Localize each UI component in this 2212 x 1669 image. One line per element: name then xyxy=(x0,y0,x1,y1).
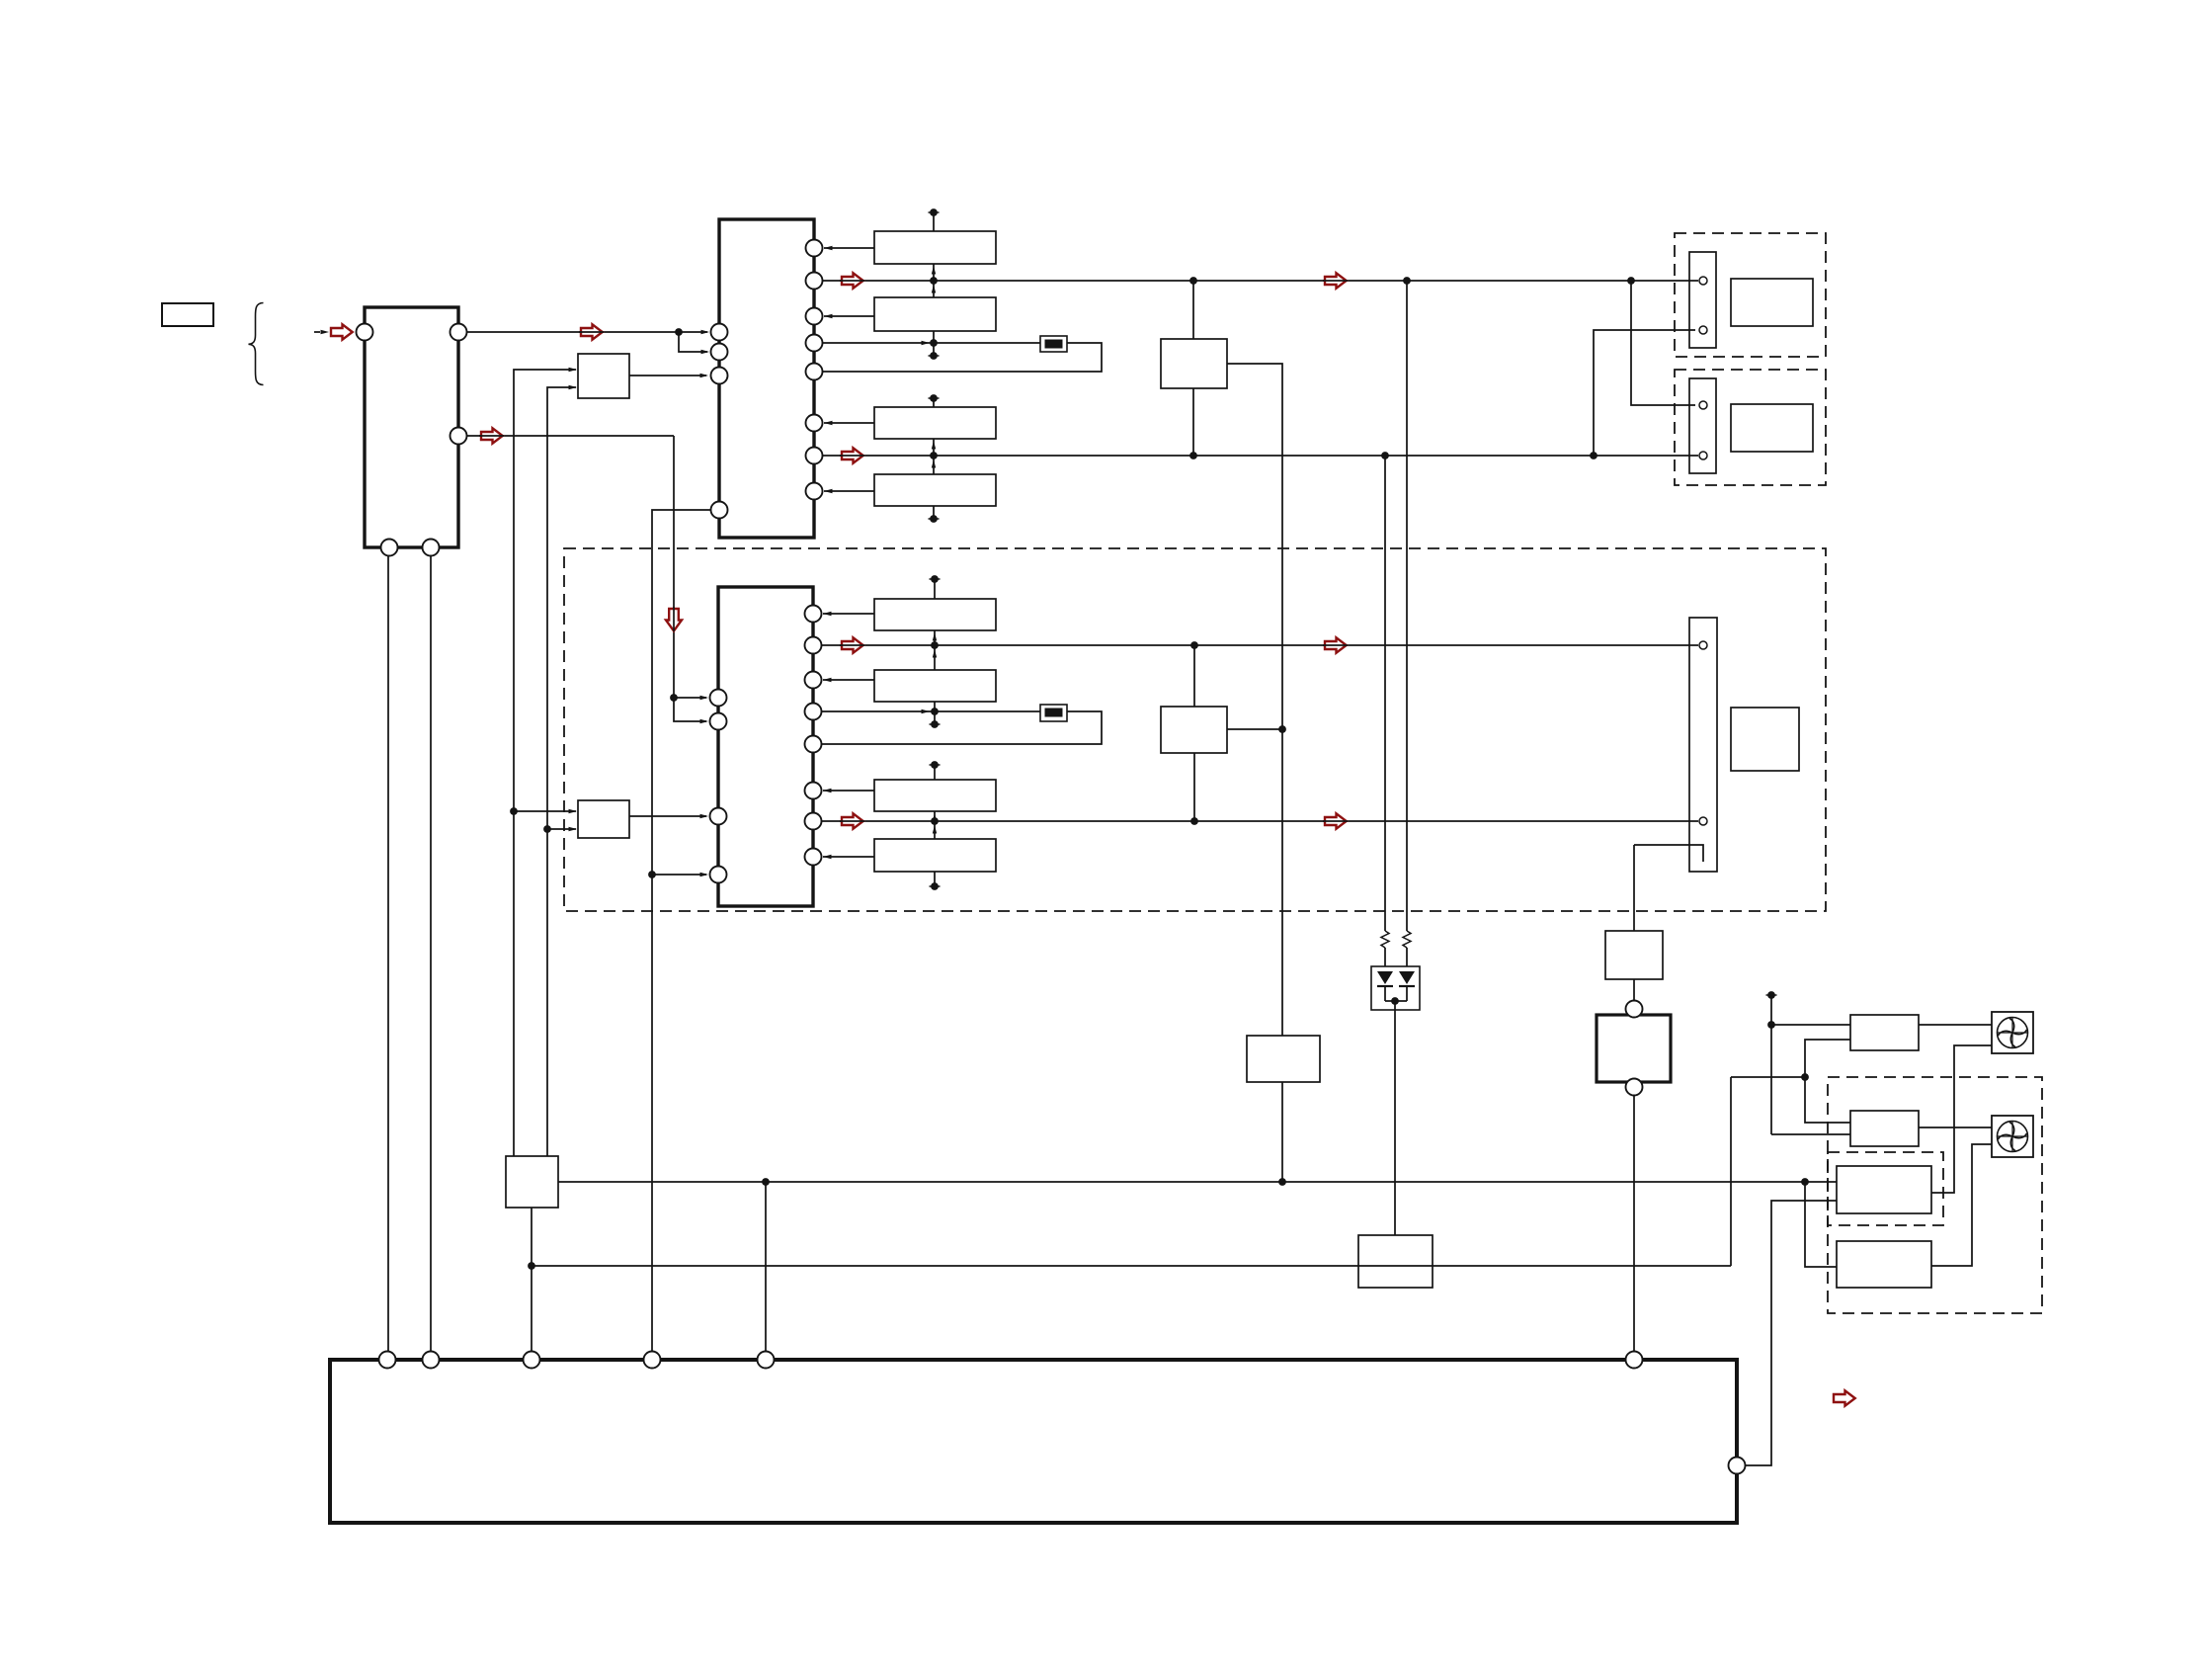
U2 pin R8 xyxy=(806,483,823,500)
wire U1 gnd2 down xyxy=(430,555,432,1360)
fuse RB2 xyxy=(1850,1111,1919,1146)
thermo RB3 xyxy=(1837,1166,1931,1213)
wire P2 to riser xyxy=(1731,1076,1805,1078)
node L8 a xyxy=(528,1262,535,1270)
U1 pin gnd2 xyxy=(423,540,440,556)
bus T2 top segment xyxy=(929,394,940,407)
wire box1 to U2 xyxy=(824,246,874,250)
CN2 pin2 xyxy=(1699,452,1707,459)
wire SB2 in b xyxy=(547,827,577,831)
wire M2 bottom xyxy=(1193,753,1195,821)
red arrow L5a xyxy=(840,448,864,462)
node L7 b xyxy=(1278,1178,1286,1186)
filter box2 xyxy=(874,297,996,331)
U3 pin R8 xyxy=(805,849,822,866)
node L6-M2 xyxy=(1190,817,1198,825)
CN1 pin1 xyxy=(1699,277,1707,285)
wire box8 to U3 xyxy=(823,855,874,859)
arrow into SB1 b xyxy=(569,385,578,389)
wire RB3 out xyxy=(1931,1045,1992,1193)
input arrowhead xyxy=(321,330,330,334)
node P1-RB1 xyxy=(1767,1021,1775,1029)
wire IC1 top-right to net A xyxy=(466,331,679,333)
U1 pin out2 xyxy=(451,428,467,445)
load B2 xyxy=(1731,404,1813,452)
CN1 pin2 xyxy=(1699,326,1707,334)
component C2 xyxy=(1040,705,1067,721)
U3 pin R6 xyxy=(805,783,822,799)
red arrow A1 xyxy=(579,324,604,339)
wire SB2 in a xyxy=(514,809,577,813)
wire RB3 in2 xyxy=(1745,1201,1837,1465)
wire box4 to U2 xyxy=(824,489,874,493)
wire G1 down xyxy=(1633,1095,1635,1360)
U1 pin gnd1 xyxy=(381,540,398,556)
wire M1 out xyxy=(1227,364,1282,1036)
U1 pin in xyxy=(357,324,373,341)
wire L7 to RB4 xyxy=(1805,1182,1837,1267)
U2 pin L2 xyxy=(711,344,728,361)
U1 pin out1 xyxy=(451,324,467,341)
thermo RB4 xyxy=(1837,1241,1931,1288)
red arrow L3b xyxy=(1323,637,1348,652)
wire IC1 mid to net B xyxy=(466,435,674,437)
red arrow B1 xyxy=(479,428,504,443)
bus T1 low segment xyxy=(929,331,940,360)
wire box5 to U3 xyxy=(823,612,874,616)
board pin5 xyxy=(758,1352,775,1369)
board pin7 xyxy=(1729,1458,1746,1474)
load B1 xyxy=(1731,279,1813,326)
power terminal xyxy=(1766,991,1777,999)
filter box3 xyxy=(874,407,996,439)
connector CN2 xyxy=(1689,378,1716,473)
U3 pin R2 xyxy=(805,637,822,654)
U2 pin L4 xyxy=(711,502,728,519)
filter box8 xyxy=(874,839,996,872)
resistor R1 xyxy=(1381,931,1389,966)
U2 pin L1 xyxy=(711,324,728,341)
bus T1 mid segment xyxy=(930,264,938,297)
dashed enclosure DB3 (right fan group) xyxy=(1828,1077,2042,1313)
fan FN1 xyxy=(1992,1012,2033,1053)
red arrow L2b xyxy=(1323,273,1348,288)
wire net C xyxy=(652,510,710,1360)
wire box3 to U2 xyxy=(824,421,874,425)
fan FN2 xyxy=(1992,1116,2033,1157)
node M-chain xyxy=(1278,725,1286,733)
node A junction xyxy=(675,328,683,336)
fuse RB1 xyxy=(1850,1015,1919,1050)
U3 pin R5 xyxy=(805,736,822,753)
G1 pin bottom xyxy=(1626,1079,1643,1096)
wire P1 to RB1 xyxy=(1771,1024,1850,1026)
legend box xyxy=(162,303,213,326)
wire SB1 out xyxy=(629,374,708,377)
CN2 pin1 xyxy=(1699,401,1707,409)
red arrow L6b xyxy=(1323,813,1348,828)
red arrow L3a xyxy=(840,637,864,652)
wire box2 to U2 xyxy=(824,314,874,318)
board pin1 xyxy=(379,1352,396,1369)
CN3 pin1 xyxy=(1699,641,1707,649)
wire diode to T2 xyxy=(1394,1001,1396,1235)
sensor G0 xyxy=(1605,931,1663,979)
U3 pin L3 xyxy=(710,808,727,825)
red arrow B down xyxy=(666,607,682,631)
wire B to U3 pin1 xyxy=(674,696,708,700)
board pin6 xyxy=(1626,1352,1643,1369)
wire M2 out xyxy=(1227,728,1282,730)
U3 pin L2 xyxy=(710,713,727,730)
wire loop2 upper xyxy=(821,709,1040,713)
IC U1 xyxy=(365,307,458,547)
wire box6 to U3 xyxy=(823,678,874,682)
filter box5 xyxy=(874,599,996,630)
node L5-M1 xyxy=(1189,452,1197,459)
node P2 xyxy=(1801,1073,1809,1081)
main board xyxy=(330,1360,1737,1523)
load B3 xyxy=(1731,708,1799,771)
wire branch L2 to CN2 xyxy=(1631,281,1695,405)
U2 pin R5 xyxy=(806,364,823,380)
connector CN1 xyxy=(1689,252,1716,348)
wire G0 to G1 xyxy=(1633,979,1635,1009)
wire L5 (data out top) xyxy=(822,455,1698,457)
U3 pin R1 xyxy=(805,606,822,623)
node L2-M1 xyxy=(1189,277,1197,285)
diode pack box xyxy=(1371,966,1420,1010)
wire branch L5 to CN1 xyxy=(1594,330,1695,456)
wire V520 xyxy=(514,370,576,1156)
filter box7 xyxy=(874,780,996,811)
wire L6 (data out mid) xyxy=(821,820,1698,822)
U2 pin R2 xyxy=(806,273,823,290)
node L7 c xyxy=(1801,1178,1809,1186)
diode D2 xyxy=(1399,971,1415,1001)
wire P1 to RB2 xyxy=(1771,1133,1850,1135)
U2 pin R3 xyxy=(806,308,823,325)
wire L7 (sense bus) xyxy=(558,1181,1837,1183)
bus T1 top segment xyxy=(929,209,940,231)
U3 pin R4 xyxy=(805,704,822,720)
node C junction xyxy=(648,871,656,878)
red arrow L2a xyxy=(840,273,864,288)
component C1 xyxy=(1040,336,1067,352)
node V554-SB2 xyxy=(543,825,551,833)
wire SB2 out xyxy=(629,814,708,818)
osc SB1 xyxy=(578,354,629,398)
IC U2 xyxy=(719,219,814,538)
xfmr T1 xyxy=(1247,1036,1320,1082)
osc SB2 xyxy=(578,800,629,838)
wire RB1 to FN1 xyxy=(1919,1024,1992,1026)
red arrow OUT xyxy=(1834,1390,1855,1405)
wire CN3 to G0 xyxy=(1633,845,1635,931)
node L5-diode xyxy=(1381,452,1389,459)
wire A to U2 pin1 xyxy=(679,330,709,334)
bus T4 low segment xyxy=(930,872,941,890)
wire M1 top xyxy=(1192,281,1194,339)
brace xyxy=(249,303,264,385)
node L2-diode xyxy=(1403,277,1411,285)
wire RB4 out xyxy=(1931,1144,1992,1266)
wire M1 bottom xyxy=(1192,388,1194,456)
U2 pin R7 xyxy=(806,448,823,464)
osc SB3 xyxy=(506,1156,558,1208)
wire L8 (bottom bus) xyxy=(532,1265,1731,1267)
arrow into SB1 a xyxy=(569,368,578,372)
U3 pin L1 xyxy=(710,690,727,707)
wire V554 xyxy=(547,387,576,1156)
U2 pin R1 xyxy=(806,240,823,257)
U2 pin R4 xyxy=(806,335,823,352)
wire net B vertical xyxy=(673,436,675,698)
dashed enclosure DB1 (top right) xyxy=(1675,233,1826,357)
bus T4 top segment xyxy=(930,761,941,780)
wire L2 (clock out top) xyxy=(822,280,1698,282)
bus T3 low segment xyxy=(930,702,941,728)
filter box4 xyxy=(874,474,996,506)
xfmr T2 xyxy=(1358,1235,1433,1288)
dashed module boundary (middle section) xyxy=(564,548,1826,911)
filter box6 xyxy=(874,670,996,702)
wire loop1 upper xyxy=(822,341,1040,345)
wire L8 riser xyxy=(1730,1077,1732,1266)
wire RD1 vertical xyxy=(1384,456,1386,931)
U3 pin L4 xyxy=(710,867,727,883)
node B junction xyxy=(670,694,678,702)
U3 pin R3 xyxy=(805,672,822,689)
bus T2 low segment xyxy=(929,506,940,523)
CN3 pin2 xyxy=(1699,817,1707,825)
wire SB3 down xyxy=(531,1208,533,1360)
G1 pin top xyxy=(1626,1001,1643,1018)
CN3 internal wire xyxy=(1634,845,1703,862)
wire RB2 to FN2 xyxy=(1919,1127,1992,1128)
U3 pin R7 xyxy=(805,813,822,830)
diode D1 xyxy=(1377,971,1393,1001)
regulator M1 xyxy=(1161,339,1227,388)
diode common wire xyxy=(1385,997,1407,1005)
input stub wire xyxy=(314,331,320,333)
wire L3 (clock out mid) xyxy=(821,644,1698,646)
wire T1 bottom xyxy=(1281,1082,1283,1182)
bus T4 mid segment xyxy=(931,811,939,839)
board pin2 xyxy=(423,1352,440,1369)
wire A to U2 pin2 xyxy=(679,332,709,354)
red arrow IN1 xyxy=(331,324,353,339)
IC U3 xyxy=(718,587,813,906)
bus T2 mid segment xyxy=(930,439,938,474)
wire box7 to U3 xyxy=(823,789,874,793)
red arrow L6a xyxy=(840,813,864,828)
regulator M2 xyxy=(1161,707,1227,753)
wire U1 gnd1 down xyxy=(387,555,389,1360)
wire P1 xyxy=(1770,995,1772,1134)
node V520-SB2 xyxy=(510,807,518,815)
wire loop1 return xyxy=(822,343,1102,372)
wire loop2 return xyxy=(821,711,1102,744)
node L2-branch xyxy=(1627,277,1635,285)
wire C to U3 xyxy=(652,873,708,876)
wire L7 drop xyxy=(765,1182,767,1360)
bus T3 mid segment xyxy=(931,630,939,670)
node L7 a xyxy=(762,1178,770,1186)
board pin3 xyxy=(524,1352,540,1369)
node L3-M2 xyxy=(1190,641,1198,649)
U2 pin L3 xyxy=(711,368,728,384)
node L5-branch xyxy=(1590,452,1598,459)
wire RB1 in2 xyxy=(1805,1040,1850,1123)
filter box1 xyxy=(874,231,996,264)
wire M2 top xyxy=(1193,645,1195,707)
U2 pin R6 xyxy=(806,415,823,432)
wire B to U3 pin2 xyxy=(674,698,708,723)
switch G1 xyxy=(1597,1015,1671,1082)
wire RD2 vertical xyxy=(1406,281,1408,931)
dashed enclosure DB2 xyxy=(1675,370,1826,485)
board pin4 xyxy=(644,1352,661,1369)
dashed enclosure DB4 xyxy=(1828,1152,1943,1225)
resistor R2 xyxy=(1403,931,1411,966)
connector CN3 xyxy=(1689,618,1717,872)
bus T3 top segment xyxy=(930,575,941,599)
